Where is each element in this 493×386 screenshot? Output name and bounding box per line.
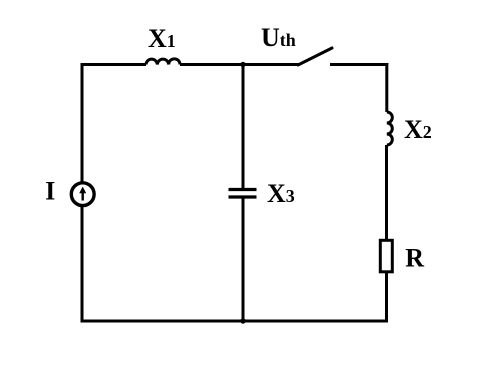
node junction bottom bbox=[240, 318, 245, 323]
wire right middle bbox=[385, 145, 388, 240]
inductor X2 bbox=[387, 112, 393, 145]
wire left upper bbox=[81, 63, 84, 183]
wire top middle to switch bbox=[180, 63, 299, 66]
svg-text:R: R bbox=[405, 243, 424, 272]
wire middle branch lower bbox=[242, 199, 245, 323]
svg-text:I: I bbox=[45, 177, 55, 206]
node junction top bbox=[240, 62, 245, 67]
inductor X1 bbox=[146, 59, 180, 65]
svg-text:Uth: Uth bbox=[261, 23, 296, 52]
wire top-left horizontal bbox=[81, 63, 147, 66]
capacitor X3 plates bbox=[229, 190, 257, 198]
current source I bbox=[71, 183, 94, 206]
wire bottom bbox=[81, 320, 388, 323]
wire right lower bbox=[385, 272, 388, 323]
resistor R bbox=[380, 240, 392, 271]
wire left lower bbox=[81, 206, 84, 323]
svg-text:X3: X3 bbox=[267, 179, 295, 208]
wire switch right to top-right corner bbox=[330, 63, 387, 112]
wire middle branch upper bbox=[242, 63, 245, 188]
arrow of current source bbox=[81, 191, 83, 201]
svg-text:X1: X1 bbox=[148, 24, 176, 53]
switch arm (open) bbox=[298, 48, 332, 65]
svg-text:X2: X2 bbox=[404, 115, 432, 144]
